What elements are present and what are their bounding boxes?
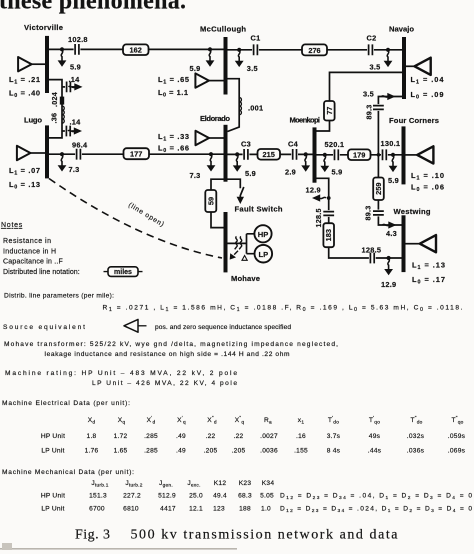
svg-text:Machine Mechanical Data (per u: Machine Mechanical Data (per unit): [2, 469, 134, 476]
svg-text:.285: .285 [144, 433, 158, 440]
svg-text:12.9: 12.9 [306, 186, 321, 195]
svg-text:K12: K12 [214, 480, 227, 487]
svg-text:227.2: 227.2 [123, 493, 141, 500]
svg-text:5.9: 5.9 [388, 176, 399, 185]
svg-text:7.3: 7.3 [190, 171, 201, 180]
svg-text:Capacitance in ..F: Capacitance in ..F [3, 259, 63, 266]
svg-text:LP Unit: LP Unit [41, 506, 64, 513]
svg-text:162: 162 [130, 46, 142, 55]
svg-text:5.05: 5.05 [260, 493, 274, 500]
svg-text:HP: HP [258, 230, 269, 239]
svg-text:500 kv transmission network an: 500 kv transmission network and data [131, 528, 399, 543]
svg-text:1.0: 1.0 [261, 506, 271, 513]
svg-text:.36: .36 [50, 113, 59, 124]
svg-text:.001: .001 [248, 104, 263, 113]
svg-text:pos. and zero sequence inducta: pos. and zero sequence inductance specif… [155, 324, 291, 331]
svg-text:215: 215 [263, 150, 275, 159]
svg-text:4.3: 4.3 [386, 229, 397, 238]
svg-text:McCullough: McCullough [200, 25, 246, 34]
svg-text:.205: .205 [204, 448, 218, 455]
svg-text:77: 77 [325, 107, 334, 115]
svg-text:Eldorado: Eldorado [200, 114, 230, 123]
svg-text:Inductance in H: Inductance in H [3, 249, 56, 256]
svg-text:3.5: 3.5 [247, 64, 258, 73]
svg-text:183: 183 [324, 229, 333, 241]
svg-text:1.8: 1.8 [87, 433, 97, 440]
svg-text:2.9: 2.9 [285, 168, 296, 177]
svg-text:1.76: 1.76 [85, 448, 99, 455]
svg-text:6700: 6700 [89, 506, 105, 513]
svg-text:Machine Electrical Data (per u: Machine Electrical Data (per unit): [2, 400, 130, 407]
svg-text:89.3: 89.3 [364, 206, 373, 221]
svg-text:12.9: 12.9 [381, 280, 396, 289]
svg-text:Distributed line notation:: Distributed line notation: [3, 269, 80, 276]
svg-text:.22: .22 [234, 433, 244, 440]
svg-text:1.65: 1.65 [114, 448, 128, 455]
svg-text:5.9: 5.9 [332, 168, 343, 177]
svg-text:.49: .49 [176, 448, 186, 455]
svg-text:.16: .16 [296, 433, 306, 440]
svg-text:.0027: .0027 [260, 433, 278, 440]
svg-text:Mohave transformer: 525/22 kV,: Mohave transformer: 525/22 kV, wye gnd /… [4, 341, 338, 348]
svg-text:68.3: 68.3 [238, 493, 252, 500]
svg-text:12.1: 12.1 [189, 506, 203, 513]
svg-text:C4: C4 [288, 140, 299, 149]
svg-text:.032s: .032s [407, 433, 425, 440]
svg-text:Mohave: Mohave [231, 274, 260, 283]
svg-text:3.5: 3.5 [363, 89, 374, 98]
svg-text:3.5: 3.5 [370, 63, 381, 72]
svg-text:89.3: 89.3 [365, 105, 374, 120]
svg-text:.44s: .44s [368, 448, 382, 455]
svg-text:C3: C3 [241, 140, 251, 149]
svg-text:177: 177 [130, 150, 142, 159]
svg-text:512.9: 512.9 [158, 493, 176, 500]
svg-text:130.1: 130.1 [381, 139, 401, 148]
svg-text:49s: 49s [369, 433, 381, 440]
svg-text:8 4s: 8 4s [327, 448, 341, 455]
svg-text:K23: K23 [239, 480, 252, 487]
svg-text:3.7s: 3.7s [327, 433, 341, 440]
svg-text:miles: miles [114, 269, 132, 276]
svg-text:Westwing: Westwing [394, 207, 431, 216]
svg-text:5.9: 5.9 [70, 63, 81, 72]
svg-text:4417: 4417 [160, 506, 176, 513]
svg-text:188: 188 [239, 506, 251, 513]
svg-text:.059s: .059s [448, 433, 466, 440]
svg-text:.155: .155 [294, 448, 308, 455]
svg-text:151.3: 151.3 [89, 493, 107, 500]
svg-text:.22: .22 [206, 433, 216, 440]
svg-text:C2: C2 [367, 34, 377, 43]
svg-text:.0036: .0036 [260, 448, 278, 455]
svg-text:Fig. 3: Fig. 3 [75, 528, 110, 543]
svg-text:C1: C1 [251, 34, 261, 43]
svg-text:59: 59 [206, 197, 215, 205]
svg-text:179: 179 [353, 151, 365, 160]
svg-text:Notes: Notes [1, 222, 23, 229]
svg-text:102.8: 102.8 [68, 35, 88, 44]
svg-text:1.72: 1.72 [114, 433, 128, 440]
svg-text:Victorville: Victorville [24, 23, 63, 32]
svg-text:Resistance in: Resistance in [3, 238, 51, 245]
svg-text:.285: .285 [144, 448, 158, 455]
svg-text:7.3: 7.3 [69, 165, 80, 174]
svg-text:.14: .14 [70, 118, 82, 127]
svg-text:123: 123 [213, 506, 225, 513]
svg-text:.069s: .069s [448, 448, 466, 455]
svg-text:128.5: 128.5 [314, 208, 323, 227]
svg-text:leakage inductance and resista: leakage inductance and resistance on hig… [45, 351, 291, 358]
svg-text:5.9: 5.9 [245, 169, 256, 178]
svg-text:.024: .024 [50, 92, 59, 107]
svg-text:.205: .205 [232, 448, 246, 455]
svg-text:K34: K34 [262, 480, 275, 487]
svg-text:LP: LP [258, 250, 268, 259]
svg-text:.49: .49 [176, 433, 186, 440]
svg-text:128.5: 128.5 [362, 246, 382, 255]
svg-text:.036s: .036s [407, 448, 425, 455]
svg-text:6810: 6810 [123, 506, 139, 513]
svg-text:Four Corners: Four Corners [389, 116, 439, 125]
svg-text:Navajo: Navajo [389, 25, 414, 34]
svg-text:these phenomena.: these phenomena. [0, 0, 186, 15]
svg-text:259: 259 [374, 183, 383, 195]
svg-text:520.1: 520.1 [325, 140, 345, 149]
svg-text:LP Unit: LP Unit [41, 448, 64, 455]
svg-text:Lugo: Lugo [24, 116, 42, 125]
svg-text:Fault Switch: Fault Switch [235, 205, 283, 214]
svg-text:96.4: 96.4 [72, 141, 88, 150]
svg-text:25.0: 25.0 [189, 493, 203, 500]
svg-text:Machine rating: HP Unit – 483: Machine rating: HP Unit – 483 MVA, 22 kV… [5, 370, 237, 377]
svg-text:HP Unit: HP Unit [41, 433, 65, 440]
svg-text:Moenkopi: Moenkopi [290, 116, 321, 125]
svg-text:276: 276 [308, 46, 320, 55]
svg-text:5.9: 5.9 [190, 64, 201, 73]
svg-text:HP Unit: HP Unit [41, 493, 65, 500]
svg-text:49.4: 49.4 [213, 493, 227, 500]
svg-text:Source equivalent: Source equivalent [3, 324, 85, 331]
svg-text:Distrib. line parameters (per: Distrib. line parameters (per mile): [4, 293, 114, 300]
svg-text:.14: .14 [69, 75, 81, 84]
